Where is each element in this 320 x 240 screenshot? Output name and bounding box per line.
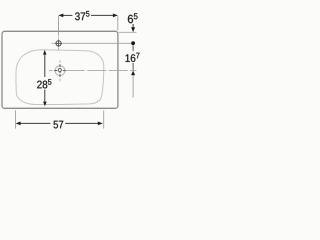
dimension terminator dot	[131, 41, 135, 45]
dimension 16.7: tail	[132, 75, 134, 97]
bowl outline	[16, 50, 104, 105]
drain centerline right (dashed)	[66, 69, 137, 71]
dimension 57: right arrow	[98, 122, 103, 126]
tap hole centerline right to dot	[62, 42, 131, 44]
dimension 28.5: top arrow	[43, 50, 47, 55]
dimension 16.7: lower stem	[132, 63, 134, 70]
tap hole circle	[56, 41, 61, 46]
dimension 28.5: line	[44, 54, 46, 77]
tap hole vertical extension line	[57, 16, 59, 36]
dimension 28.5: line lower	[44, 90, 46, 102]
dimension 57: label	[54, 121, 64, 129]
tap hole centerline left dash	[52, 42, 56, 44]
dimension 57: line	[20, 122, 50, 124]
drain inner dash	[59, 71, 61, 73]
dimension 57: left arrow	[16, 122, 21, 126]
dimension 37.5: right extension line	[117, 16, 119, 31]
drain inner circle	[58, 68, 61, 71]
washbasin outer outline	[2, 31, 118, 108]
drain outer circle	[55, 66, 65, 76]
dimension 37.5: label	[75, 11, 89, 20]
dimension 28.5: bottom arrow	[43, 102, 47, 107]
dimension 6.5: stem	[132, 24, 134, 28]
dimension 57: left extension line	[15, 110, 17, 128]
dimension 6.5: label	[128, 13, 138, 23]
dimension 37.5: line	[62, 14, 72, 16]
drain cross ticks	[59, 64, 61, 67]
dimension 16.7: up arrow	[131, 71, 135, 76]
dimension 37.5: right arrow	[113, 14, 118, 18]
dimension 28.5: label	[37, 79, 51, 88]
dimension 57: right extension line	[103, 110, 105, 128]
drain centerline dashes (N,S,W)	[59, 60, 61, 62]
dimension 6.5: extension line	[119, 31, 137, 33]
tap hole cross ticks	[58, 40, 60, 47]
dimension 37.5: left arrow	[58, 14, 63, 18]
dimension 16.7: upper stem	[132, 45, 134, 51]
tap hole lower dash	[58, 47, 60, 50]
dimension 6.5: down arrow	[131, 27, 135, 32]
dimension 16.7: label	[126, 53, 140, 62]
